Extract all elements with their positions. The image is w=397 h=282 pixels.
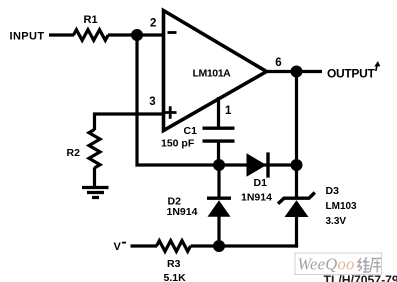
svg-text:1: 1 (225, 105, 232, 117)
svg-text:3.3V: 3.3V (326, 216, 347, 227)
diode D3 zener (295, 165, 298, 199)
watermark CJK wei glyph (358, 257, 370, 272)
wire C1 to J2 (217, 141, 220, 165)
svg-text:D3: D3 (326, 185, 340, 197)
node junction J3 (output node) (291, 66, 303, 78)
node junction J2 (213, 159, 225, 171)
wire J1 down and right to clamp row (137, 35, 219, 165)
wire J3 down to clamp row (295, 72, 298, 166)
capacitor C1 (203, 128, 235, 141)
svg-text:2: 2 (150, 18, 156, 30)
svg-text:WeeQoo: WeeQoo (298, 255, 355, 274)
svg-text:R2: R2 (67, 147, 81, 159)
op-amp plus input symbol (164, 106, 177, 118)
ground symbol (82, 188, 109, 198)
svg-text:6: 6 (275, 57, 281, 69)
svg-text:D1: D1 (254, 177, 268, 189)
node junction J5 (213, 240, 225, 252)
output footnote arrow (376, 65, 377, 72)
svg-text:R3: R3 (167, 258, 181, 270)
wire bottom rail R3 to D3 branch (191, 244, 299, 247)
svg-text:LM101A: LM101A (193, 68, 232, 80)
svg-text:LM103: LM103 (326, 201, 358, 212)
wire op-amp output (266, 70, 322, 73)
wire pin 3 to R2 (95, 114, 164, 130)
svg-text:5.1K: 5.1K (164, 272, 187, 282)
node junction J1 (summing node) (131, 29, 143, 41)
wire input to R1 (49, 33, 74, 36)
op-amp minus input symbol (168, 31, 177, 34)
wire clamp row J2 to J4 (219, 163, 297, 166)
wire R1 to op-amp pin 2 (108, 33, 163, 36)
diode D1 (247, 153, 267, 176)
svg-text:INPUT: INPUT (10, 31, 45, 43)
wire pin 1 to C1 (217, 97, 220, 128)
node junction J4 (291, 159, 303, 171)
svg-text:R1: R1 (84, 14, 98, 26)
svg-text:C1: C1 (184, 125, 198, 137)
wire V- to R3 (131, 244, 158, 247)
svg-text:1N914: 1N914 (167, 206, 198, 218)
resistor R2 (89, 130, 100, 168)
diode D2 (217, 165, 220, 199)
svg-text:150 pF: 150 pF (161, 138, 195, 150)
watermark box (295, 253, 382, 275)
svg-text:3: 3 (149, 96, 155, 108)
watermark CJK ku glyph (370, 259, 381, 273)
resistor R1 (74, 30, 109, 41)
svg-text:TL/H/7057-79: TL/H/7057-79 (324, 273, 397, 282)
op-amp U1 LM101A body (164, 11, 267, 131)
resistor R3 (157, 241, 191, 252)
wire R2 to ground (93, 168, 96, 188)
svg-text:V: V (114, 241, 122, 253)
svg-text:OUTPUT: OUTPUT (327, 66, 376, 80)
svg-text:1N914: 1N914 (241, 192, 272, 204)
